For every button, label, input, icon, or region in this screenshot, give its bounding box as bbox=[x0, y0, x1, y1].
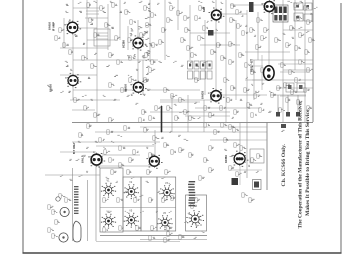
svg-text:Ch. KCS66 Only.: Ch. KCS66 Only. bbox=[282, 144, 287, 187]
svg-text:V6: V6 bbox=[163, 212, 167, 215]
svg-text:V3: V3 bbox=[165, 182, 169, 185]
svg-text:6AG5: 6AG5 bbox=[201, 91, 205, 99]
svg-text:6CB6: 6CB6 bbox=[224, 155, 228, 163]
svg-text:Makes It Possible to Bring You: Makes It Possible to Bring You This Serv… bbox=[306, 107, 311, 216]
svg-text:6J6: 6J6 bbox=[202, 7, 206, 12]
svg-text:The Cooperation of the Manufac: The Cooperation of the Manufacturer of T… bbox=[299, 100, 304, 229]
svg-text:6AL5: 6AL5 bbox=[81, 155, 85, 163]
svg-text:B-T ONLY: B-T ONLY bbox=[73, 142, 76, 154]
svg-text:V2: V2 bbox=[129, 181, 133, 184]
svg-text:6AU6: 6AU6 bbox=[48, 22, 52, 30]
svg-text:V5: V5 bbox=[129, 210, 133, 213]
svg-text:6AU6: 6AU6 bbox=[124, 84, 128, 92]
svg-text:6CB6: 6CB6 bbox=[122, 40, 126, 48]
svg-text:IF AMP: IF AMP bbox=[52, 22, 56, 31]
svg-text:6BQ7-GT: 6BQ7-GT bbox=[250, 59, 254, 72]
svg-text:V1: V1 bbox=[107, 180, 111, 183]
svg-text:6AU6: 6AU6 bbox=[49, 84, 53, 92]
